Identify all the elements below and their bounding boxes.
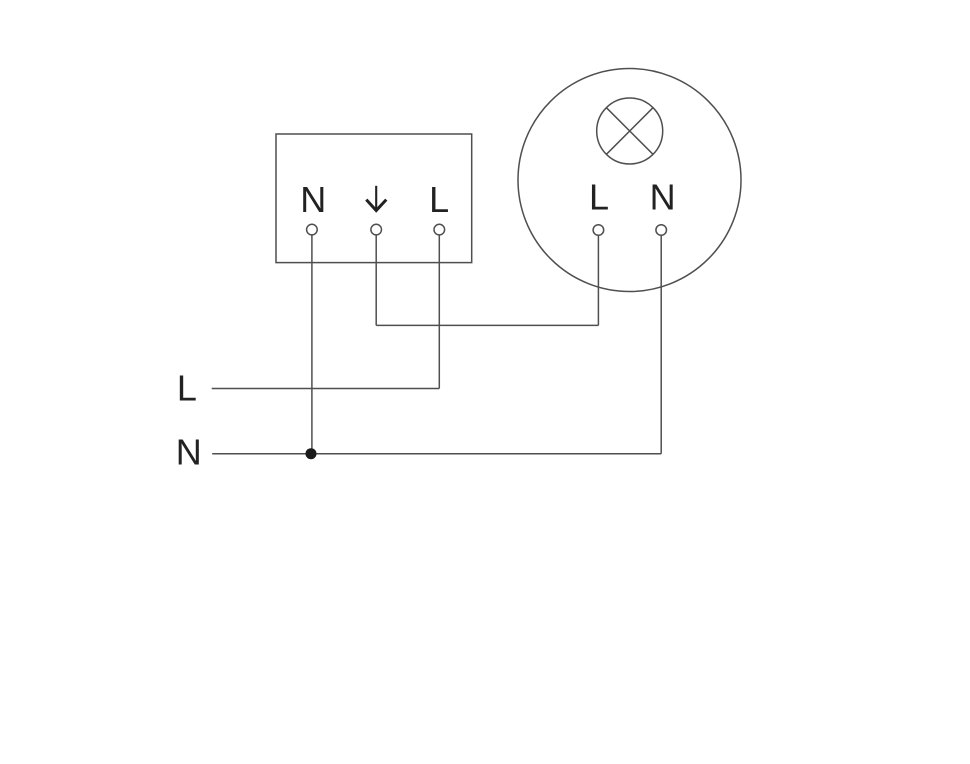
wire horizontal neutral feed N — [212, 453, 661, 455]
terminal N pin circle (lamp) — [656, 225, 667, 236]
net label N (supply neutral) — [176, 432, 202, 473]
net label L (supply live) — [177, 367, 197, 408]
wire sensor L terminal down — [438, 235, 440, 389]
svg-text:L: L — [429, 179, 449, 220]
wire sensor N terminal down to neutral junction — [311, 235, 313, 454]
sensor box (motion sensor / switch unit) — [276, 134, 472, 263]
terminal label L (lamp) — [589, 177, 609, 218]
terminal N pin circle (sensor) — [307, 224, 318, 235]
terminal arrow pin circle (sensor) — [371, 224, 382, 235]
wire lamp L terminal down — [597, 235, 599, 325]
terminal label L (sensor) — [429, 179, 449, 220]
junction dot on neutral — [306, 448, 317, 459]
svg-text:N: N — [176, 432, 202, 473]
wire sensor arrow terminal down — [375, 235, 377, 326]
terminal L pin circle (lamp) — [593, 225, 604, 236]
terminal label N (sensor) — [300, 179, 326, 220]
wire horizontal live feed L — [212, 388, 440, 390]
lamp outline circle — [518, 69, 741, 292]
svg-text:L: L — [589, 177, 609, 218]
svg-text:N: N — [300, 179, 326, 220]
svg-text:L: L — [177, 367, 197, 408]
svg-text:N: N — [650, 177, 676, 218]
terminal label N (lamp) — [650, 177, 676, 218]
lamp symbol (circle with X) — [597, 98, 663, 164]
wire lamp N terminal down — [660, 235, 662, 453]
terminal L pin circle (sensor) — [434, 224, 445, 235]
wire horizontal switched live to lamp L — [376, 324, 598, 326]
terminal label arrow (sensor switched output) — [366, 186, 386, 211]
